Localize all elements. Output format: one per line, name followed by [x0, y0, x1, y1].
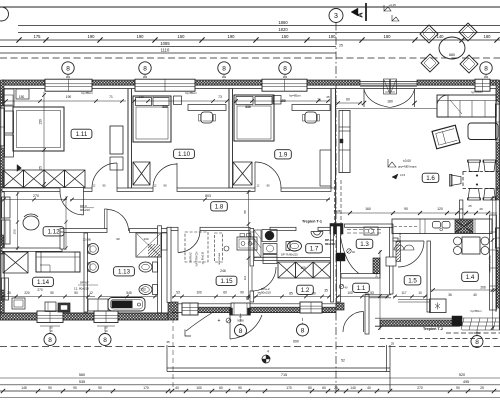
svg-text:NA STRYCH: NA STRYCH: [195, 251, 199, 266]
wall between 1.5 and 1.4: [427, 241, 430, 312]
kitchen counter: [392, 219, 492, 234]
kitchen table: [462, 237, 480, 254]
svg-text:8: 8: [222, 65, 226, 72]
counter dashed line: [394, 226, 419, 228]
svg-text:25|25: 25|25: [334, 209, 341, 213]
svg-text:8: 8: [484, 65, 488, 72]
dim line 1085: [0, 46, 336, 48]
svg-text:90: 90: [456, 386, 460, 390]
svg-text:Trepień T-2: Trepień T-2: [423, 327, 443, 331]
tall cabinets right kitchen: [490, 215, 497, 310]
shower square 1.4: [430, 299, 447, 313]
label 1.14: [33, 277, 54, 286]
floor line living: [336, 108, 437, 110]
porch outline: [166, 345, 168, 372]
svg-text:8: 8: [66, 65, 70, 72]
svg-text:Trepień T-1: Trepień T-1: [302, 220, 322, 224]
benchmark symbol porch: [262, 355, 270, 363]
svg-text:71: 71: [109, 95, 113, 99]
svg-text:DP-6/*: DP-6/*: [80, 281, 90, 285]
closet 1.10: [133, 162, 150, 185]
svg-text:25: 25: [339, 44, 343, 48]
svg-text:80: 80: [312, 292, 316, 296]
svg-text:75: 75: [257, 292, 261, 296]
door leaf and arc 1.12: [83, 191, 85, 215]
dim 270 room 1.12: [2, 199, 67, 201]
left exterior wall: [0, 80, 2, 320]
dim line 1110: [0, 52, 336, 54]
svg-text:25: 25: [468, 204, 472, 208]
bed 1.10: [133, 96, 171, 142]
door arc 1.11: [116, 163, 118, 188]
washing column 1.13: [162, 233, 168, 250]
svg-text:1.4: 1.4: [466, 274, 475, 281]
svg-text:10: 10: [418, 291, 422, 295]
tv cabinet on spine wall: [339, 111, 350, 173]
svg-text:90: 90: [50, 291, 54, 295]
vertical dim 1.12: [17, 192, 19, 250]
svg-text:ppp=NIEXmapa: ppp=NIEXmapa: [398, 165, 417, 169]
closet row 1.2: [278, 262, 296, 278]
label 1.7: [306, 244, 323, 253]
dining chairs top: [468, 160, 481, 172]
svg-text:90|90: 90|90: [237, 319, 244, 323]
svg-text:560: 560: [79, 373, 85, 377]
stairwell dashed guides: [334, 180, 336, 236]
bathroom 1.13 top wall: [60, 229, 107, 233]
dims 1.9: [234, 100, 330, 102]
label 1.13: [114, 267, 135, 276]
svg-text:90x210: 90x210: [80, 208, 90, 212]
svg-text:1.13: 1.13: [118, 269, 131, 276]
svg-text:8: 8: [301, 327, 305, 334]
svg-text:12 (36): 12 (36): [83, 238, 91, 242]
svg-text:117: 117: [401, 291, 406, 295]
door arc 1.10: [176, 163, 178, 188]
svg-text:246: 246: [375, 272, 379, 277]
svg-text:150: 150: [13, 229, 17, 234]
bed 1.11: [13, 107, 64, 151]
svg-text:150: 150: [138, 95, 144, 99]
dims 1.10: [133, 100, 228, 102]
svg-text:60: 60: [223, 291, 227, 295]
svg-text:60: 60: [322, 386, 326, 390]
svg-text:8: 8: [283, 65, 287, 72]
svg-text:1.8: 1.8: [215, 204, 224, 211]
svg-text:hp=85cm: hp=85cm: [471, 309, 482, 313]
dim 60 near spine: [336, 102, 362, 104]
svg-text:150: 150: [178, 34, 186, 39]
svg-text:+: +: [218, 318, 221, 324]
door arc to 1.15: [178, 231, 200, 253]
svg-text:190: 190: [137, 34, 145, 39]
wall stub corner 1.12: [60, 232, 64, 249]
svg-text:typ=85cm: typ=85cm: [3, 236, 6, 246]
corridor bottom wall: [167, 227, 178, 230]
window near entrance: [182, 303, 198, 315]
label 1.12: [43, 227, 64, 236]
duct strip 1.7: [254, 230, 261, 257]
svg-text:111: 111: [243, 275, 247, 280]
toilet 1.13: [139, 262, 152, 272]
window W1 room 1.11: [45, 79, 92, 91]
label 1.9: [275, 150, 292, 159]
dim row 1.2: [254, 296, 331, 298]
svg-text:12, 80x210: 12, 80x210: [74, 287, 89, 291]
svg-text:1.11: 1.11: [76, 131, 88, 138]
kitchen short wall: [460, 200, 463, 219]
svg-text:1.9: 1.9: [279, 152, 288, 159]
svg-text:90: 90: [116, 237, 120, 241]
svg-text:60: 60: [346, 98, 350, 102]
svg-text:270: 270: [33, 194, 39, 198]
svg-text:80x210: 80x210: [325, 242, 335, 246]
wall above 1.3: [345, 224, 394, 227]
svg-text:35: 35: [166, 340, 170, 344]
vertical dim x380: [379, 250, 381, 330]
kitchen chairs: [454, 237, 462, 245]
wall chunk a: [373, 258, 380, 274]
left wall window: [0, 108, 5, 146]
cabinet with basin 1.7: [262, 230, 277, 242]
svg-text:212: 212: [66, 75, 71, 79]
svg-text:803: 803: [205, 194, 211, 198]
dim row kitchen: [336, 212, 497, 214]
svg-text:690: 690: [293, 340, 299, 344]
svg-text:180: 180: [484, 34, 492, 39]
svg-text:495: 495: [463, 380, 469, 384]
desk chair 1.10: [201, 112, 213, 123]
vent symbol 1.3 b: [339, 284, 343, 288]
svg-text:1.3: 1.3: [360, 241, 369, 248]
stepped wall right of 1.1: [365, 294, 369, 334]
svg-text:40: 40: [473, 293, 477, 297]
terrace round table: [439, 37, 465, 59]
svg-text:8: 8: [143, 65, 147, 72]
svg-text:1085: 1085: [160, 41, 170, 46]
desk 1.9: [292, 105, 330, 111]
bottom wall right of door 1.1: [336, 303, 344, 310]
wardrobe 1.11: [110, 126, 123, 154]
svg-text:160: 160: [365, 207, 371, 211]
svg-text:1.14: 1.14: [37, 279, 50, 286]
french door jambs terrace: [363, 89, 365, 107]
desk chair 1.9: [305, 112, 317, 123]
bathtub 1.13: [108, 298, 145, 312]
svg-text:1.6: 1.6: [426, 175, 435, 182]
svg-text:175: 175: [34, 34, 42, 39]
wall between 1.11 and 1.10: [128, 89, 132, 188]
cabinet arcs 1.5: [394, 245, 414, 250]
sofa 1.14: [36, 252, 80, 272]
grid bubbles bottom: [44, 334, 56, 346]
vertical dim x173 bottom: [172, 310, 174, 390]
svg-text:36: 36: [459, 207, 463, 211]
svg-text:100: 100: [347, 291, 353, 295]
corner shelf 1.11: [3, 89, 14, 106]
svg-text:180: 180: [387, 100, 393, 104]
svg-text:73: 73: [218, 95, 222, 99]
svg-text:715: 715: [281, 373, 287, 377]
svg-text:25: 25: [39, 166, 43, 170]
dim row 1.14: [2, 296, 95, 298]
svg-text:190: 190: [88, 34, 96, 39]
hatched strip 1.5: [396, 242, 401, 262]
svg-text:145: 145: [21, 386, 27, 390]
label 1.4: [462, 272, 479, 281]
washbasin 2 1.13: [88, 262, 99, 273]
svg-text:8: 8: [475, 339, 479, 346]
label 1.1: [353, 283, 370, 292]
svg-text:150: 150: [282, 34, 290, 39]
window bottom 3: [300, 302, 322, 313]
radiator left wall 1.14: [2, 278, 9, 300]
svg-text:88: 88: [243, 210, 247, 214]
door 1.5 leaf and arc: [398, 240, 424, 242]
grid bubbles row: [62, 62, 74, 74]
svg-text:symetria podłóg: symetria podłóg: [489, 255, 492, 273]
cabinet KL: [45, 302, 56, 312]
shower cabin 1.13: [136, 233, 161, 257]
door leaf and arc to 1.13: [105, 209, 108, 229]
svg-text:212: 212: [143, 75, 148, 79]
closet row 1.11: [3, 170, 24, 188]
svg-text:160: 160: [300, 266, 306, 270]
svg-text:100: 100: [196, 386, 202, 390]
svg-text:535: 535: [79, 380, 85, 384]
right exterior wall: [498, 80, 500, 330]
kitchen sink: [433, 222, 441, 229]
setback dashed line: [0, 57, 500, 59]
svg-text:SKRZYNKA: SKRZYNKA: [218, 253, 221, 265]
window bottom 1: [37, 311, 63, 323]
wall 1.1 right / 1.5 left: [390, 226, 393, 294]
svg-text:85: 85: [289, 292, 293, 296]
window W2 room 1.10: [135, 79, 195, 91]
attic hatch dashed box: [185, 232, 208, 262]
svg-text:4: 4: [267, 350, 269, 354]
small fixtures left 1.7: [250, 232, 255, 237]
hall 1.15 right wall: [250, 229, 254, 267]
bedroom corridor wall: [2, 188, 60, 191]
svg-text:180: 180: [384, 34, 392, 39]
svg-text:1.2: 1.2: [301, 287, 310, 294]
svg-text:90: 90: [404, 207, 408, 211]
dims 1.11: [4, 100, 126, 102]
nightstand 1.10: [174, 96, 182, 105]
wardrobe column left 1.12: [2, 197, 10, 218]
svg-text:WYKAZ: WYKAZ: [189, 252, 193, 262]
elevation flag top right: [384, 5, 391, 11]
wall between 1.12 and 1.14: [2, 248, 62, 251]
elevation marker living: [388, 159, 396, 167]
svg-text:A: A: [356, 12, 365, 18]
svg-text:90: 90: [266, 184, 270, 188]
svg-text:os. 60x110: os. 60x110: [201, 251, 205, 264]
hall 1.15 left wall: [167, 227, 171, 302]
dim row 1.13: [99, 296, 157, 298]
svg-text:100: 100: [196, 291, 202, 295]
svg-text:29: 29: [479, 207, 483, 211]
armchair rotated: [432, 125, 460, 149]
svg-text:40: 40: [367, 386, 371, 390]
svg-text:90|90: 90|90: [474, 332, 481, 335]
grid bubble 3: [329, 9, 343, 23]
dim line 535: [0, 384, 500, 386]
right wall window: [496, 104, 500, 140]
vertical dim x66: [65, 196, 67, 250]
label 1.8: [211, 202, 228, 211]
sofa top living: [437, 95, 496, 117]
wall between 1.3 and 1.1: [341, 274, 380, 279]
svg-text:53: 53: [370, 291, 374, 295]
bidet 1.13: [139, 285, 152, 295]
kitchen stove: [455, 220, 473, 233]
bed pillows 1.9: [236, 97, 253, 105]
svg-text:25: 25: [326, 95, 330, 99]
svg-text:1.15: 1.15: [220, 278, 233, 285]
svg-text:hp=85cm: hp=85cm: [81, 91, 93, 95]
entrance door unit: [231, 303, 250, 315]
svg-text:253: 253: [140, 288, 146, 292]
dim line 560: [0, 377, 500, 379]
desk chair 1.12: [23, 216, 39, 230]
svg-text:150: 150: [19, 95, 25, 99]
dim row 1.15: [172, 296, 250, 298]
stair dark block: [330, 224, 343, 235]
svg-text:+4,15: +4,15: [388, 3, 396, 7]
top wall inner face line: [2, 88, 498, 90]
svg-text:1.10: 1.10: [178, 151, 191, 158]
dining chairs bottom: [468, 189, 481, 201]
svg-text:220: 220: [24, 291, 30, 295]
door arc 1.2: [251, 267, 253, 291]
svg-text:4,15: 4,15: [400, 173, 406, 177]
svg-text:212: 212: [484, 75, 489, 79]
svg-text:90: 90: [74, 291, 78, 295]
french door arcs terrace: [364, 90, 390, 108]
wall top of 1.5: [393, 238, 398, 241]
svg-text:60: 60: [219, 386, 223, 390]
dim 266 kitchen: [431, 289, 497, 291]
svg-text:90: 90: [238, 386, 242, 390]
svg-text:35: 35: [324, 289, 328, 293]
bed pillows 1.10: [136, 98, 152, 106]
svg-text:330: 330: [162, 105, 168, 109]
svg-text:680: 680: [449, 53, 455, 57]
svg-text:180: 180: [329, 34, 337, 39]
svg-text:±0.00: ±0.00: [403, 159, 411, 163]
step lines by shower: [398, 299, 429, 301]
door arc 1.3: [340, 237, 342, 273]
svg-text:246: 246: [220, 269, 226, 273]
label 1.11: [71, 129, 92, 138]
wall left of 1.3: [337, 226, 341, 302]
dark block right: [452, 316, 462, 326]
stair treads dashed: [347, 229, 381, 231]
svg-text:1820: 1820: [278, 27, 288, 32]
top exterior wall hatched segments: [2, 80, 45, 85]
svg-text:8: 8: [48, 337, 52, 344]
dark duct block: [336, 253, 345, 261]
wall basin 1.7: [311, 232, 323, 238]
svg-text:90: 90: [73, 386, 77, 390]
top border line: [0, 6, 500, 8]
dim line 1860: [18, 25, 500, 27]
svg-text:170: 170: [143, 386, 149, 390]
dining table dashed: [463, 172, 500, 189]
dashed stair continuation right: [446, 332, 500, 334]
svg-text:190: 190: [228, 34, 236, 39]
svg-text:typ=85cm: typ=85cm: [471, 90, 482, 94]
svg-text:170: 170: [286, 386, 292, 390]
vertical dim 1.11: [43, 92, 45, 186]
entrance door swing arc left: [186, 312, 214, 332]
wall chunk b: [386, 257, 396, 266]
vertical dim x248: [248, 190, 250, 300]
svg-text:8: 8: [103, 337, 107, 344]
svg-text:75: 75: [317, 98, 321, 102]
wall right of 1.2: [331, 226, 334, 302]
svg-text:212: 212: [283, 75, 288, 79]
dims near 1.1: [336, 296, 389, 298]
small table 1.14: [12, 298, 25, 309]
label 1.2: [297, 285, 314, 294]
main spine wall left of living room: [331, 89, 336, 188]
svg-text:25: 25: [334, 386, 338, 390]
label 1.10: [174, 149, 195, 158]
svg-text:190: 190: [66, 95, 72, 99]
svg-text:140: 140: [350, 386, 356, 390]
svg-text:DP-7A 80x210: DP-7A 80x210: [281, 253, 298, 257]
vent symbol 1.3 a: [347, 249, 351, 253]
svg-text:90: 90: [98, 386, 102, 390]
svg-text:133: 133: [143, 237, 148, 241]
pennant marker 1.11: [17, 165, 22, 172]
svg-text:90: 90: [240, 291, 244, 295]
bottom wall entrance section hatched: [178, 303, 336, 305]
svg-text:120: 120: [437, 207, 443, 211]
narrow dashed box 1.15: [215, 233, 223, 262]
dim line 1820: [18, 32, 500, 34]
right wall window 2: [496, 228, 500, 248]
bathroom 1.13 right wall: [158, 226, 162, 313]
svg-text:150: 150: [280, 99, 286, 103]
terrace chairs diamonds: [420, 25, 438, 43]
bottom wall step corner: [168, 302, 178, 320]
svg-text:90x210: 90x210: [261, 291, 271, 295]
closet X 1.14: [3, 252, 28, 273]
corridor dim 803: [70, 199, 330, 201]
svg-text:80: 80: [308, 386, 312, 390]
svg-text:1.1: 1.1: [357, 285, 366, 292]
bottom-most line: [0, 397, 500, 399]
window sill marks bottom: [40, 325, 60, 327]
terrace glass door: [360, 81, 417, 83]
bed pillows 1.11: [5, 111, 14, 133]
closet shared 1.10/1.9: [233, 162, 252, 185]
bathroom 1.13 left wall: [84, 233, 88, 312]
svg-text:25: 25: [391, 342, 395, 346]
svg-text:hp=85cm: hp=85cm: [289, 94, 301, 98]
dim row 1.5: [393, 296, 427, 298]
window W4 kitchen: [475, 79, 490, 91]
closet 1.9 right: [320, 150, 331, 186]
bottom wall right section hatched: [380, 320, 452, 326]
svg-text:1110: 1110: [161, 48, 170, 53]
svg-text:52: 52: [341, 359, 345, 363]
svg-text:90: 90: [48, 386, 52, 390]
